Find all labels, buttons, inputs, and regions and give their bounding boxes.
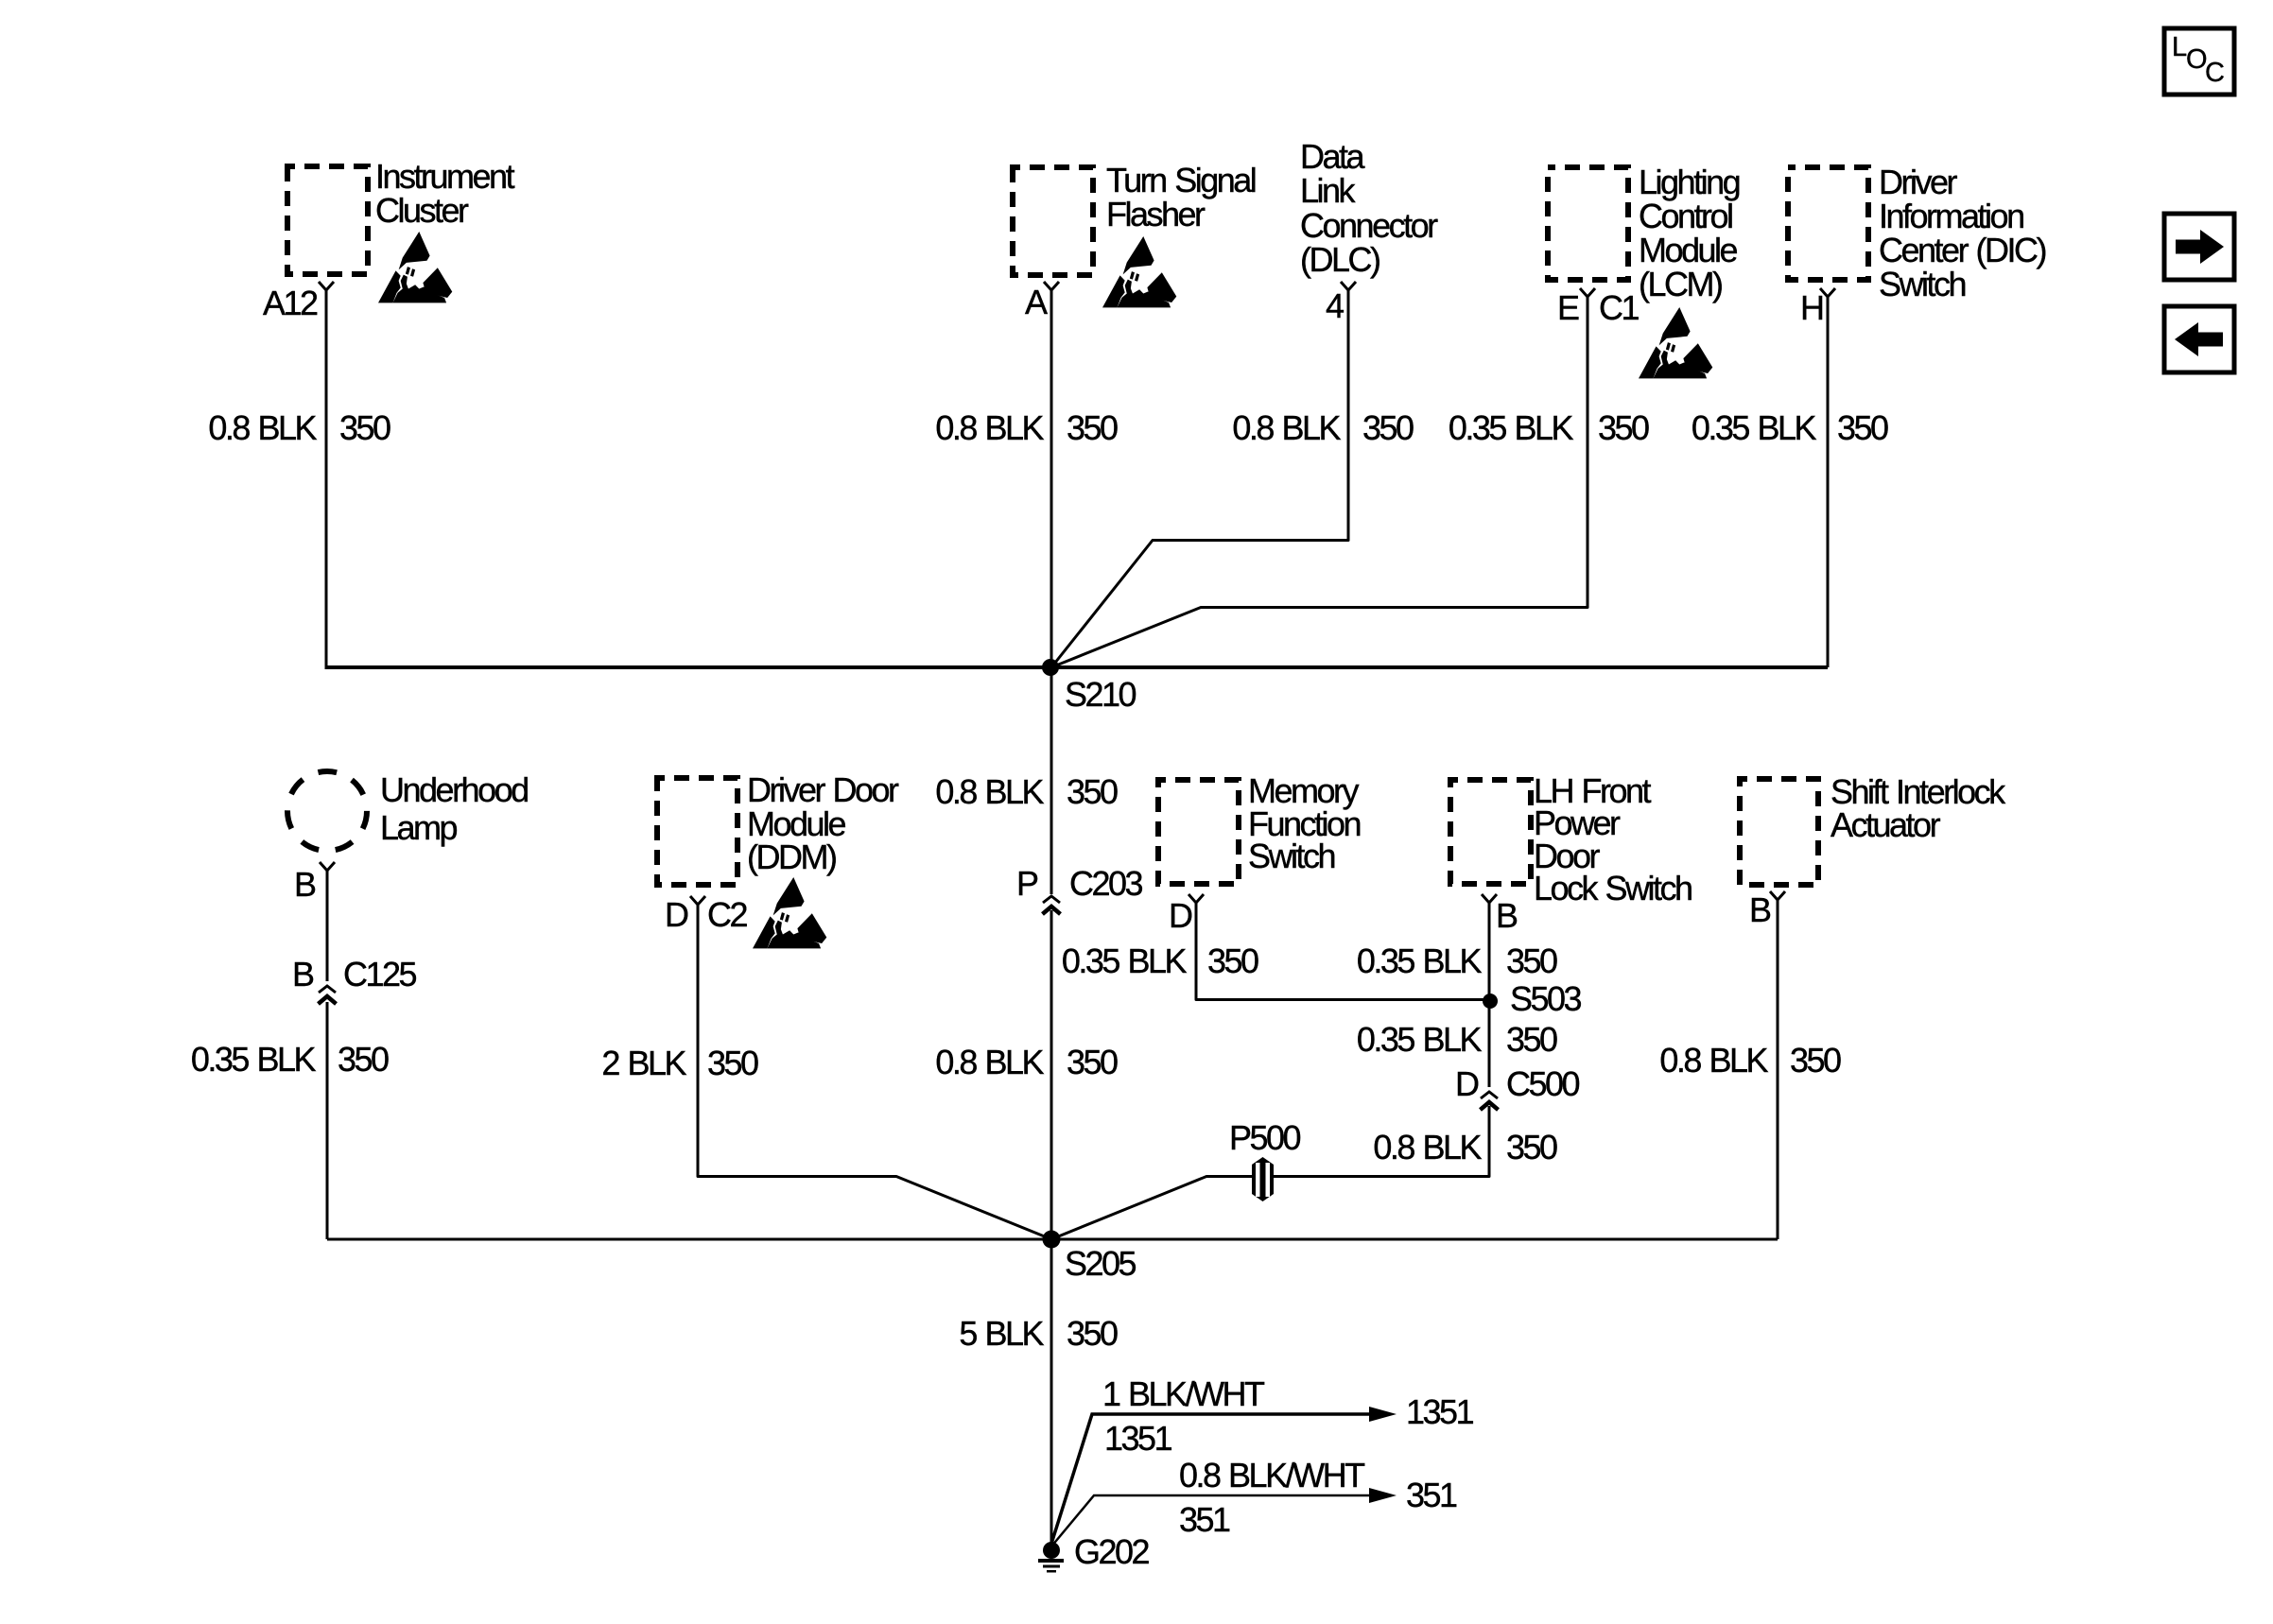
pin P at C203 [1016,867,1037,901]
LOC letters [2172,32,2187,63]
wire bus S205 horizontal [327,1238,1778,1241]
Y connector pin H [1820,288,1835,297]
splice label S205 [1065,1247,1135,1281]
wire LCM pin E to S210 [1051,297,1588,667]
label Instrument Cluster [375,160,512,227]
connector label C125 [343,958,415,992]
pin D at C500 [1455,1067,1478,1101]
pin B (Underhood Lamp) [294,868,315,902]
wire A12 Instrument Cluster to bus S210 [325,290,328,667]
ground label G202 [1074,1535,1148,1569]
wire gauge 0.8 BLK (trunk S210-C203) [935,775,1042,809]
component box LH Front Power Door Lock Switch [1450,780,1531,884]
circuit 350 (A12 wire) [339,411,390,445]
wire gauge 0.8 BLK (flasher wire) [935,411,1042,445]
wire label 1 BLK/WHT [1102,1377,1263,1411]
component box Driver Information Center Switch [1788,167,1868,280]
circuit 350 (shift interlock wire) [1790,1044,1840,1078]
circuit 350 (memory switch wire) [1207,944,1258,978]
grommet symbol P500 [1252,1157,1274,1201]
circuit 350 (DLC wire) [1362,411,1413,445]
ESD symbol (LCM) [1639,307,1712,378]
connector label C2 (DDM) [707,898,746,932]
wire label 0.8 BLK/WHT [1179,1459,1363,1493]
splice S503 [1483,993,1498,1009]
wire Underhood Lamp B down to C125 [326,871,329,981]
component box Instrument Cluster [287,166,368,274]
pin H (DIC Switch) [1800,291,1823,325]
connector label C500 [1506,1067,1578,1101]
pin 4 (DLC) [1326,289,1343,323]
splice label S503 [1510,982,1580,1016]
LOC legend box [2164,28,2234,95]
net 1351 destination [1406,1395,1472,1429]
label Turn Signal Flasher [1106,164,1255,231]
wire trunk S205 to G202 [1050,1239,1053,1545]
wire Door Lock Switch B through S503 to C500 [1488,903,1491,1087]
wire C500 to P500 to S205 [1051,1106,1489,1239]
wire gauge 0.35 BLK (LCM wire) [1449,411,1571,445]
circuit 350 (door lock wire) [1506,944,1556,978]
component box Memory Function Switch [1158,780,1239,884]
wire Memory Function Switch D to S503 [1196,903,1490,1000]
wire gauge 0.35 BLK (DIC wire) [1692,411,1814,445]
right arrow box [2164,214,2234,280]
pin B at C125 [292,958,313,992]
wire branch G202 to net 1351 [1051,1414,1371,1544]
wire gauge 0.8 BLK (C500-P500 wire) [1373,1131,1480,1165]
Y connector pin A12 [319,282,334,290]
circuit 350 (DIC wire) [1837,411,1887,445]
wire trunk C203 to S205 [1050,910,1053,1239]
label Data Link Connector (DLC) [1300,140,1436,277]
ESD symbol (Instrument Cluster) [378,232,452,302]
wire gauge 0.8 BLK (trunk C203-S205) [935,1045,1042,1080]
wire DLC pin 4 to S210 [1051,290,1348,667]
circuit 350 (trunk C203-S205) [1067,1045,1117,1080]
Y connector memory D [1189,894,1204,903]
wire gauge 2 BLK (DDM wire) [601,1046,685,1080]
pin A12 (Instrument Cluster) [263,286,317,320]
circuit number 1351 [1104,1422,1171,1456]
wire C125 down to bus S205 [326,1002,329,1239]
wire gauge 0.8 BLK (shift interlock wire) [1659,1044,1766,1078]
pin A (Turn Signal Flasher) [1025,285,1046,320]
pin B (LH Front Power Door Lock Switch) [1496,899,1517,933]
connector label C1 (LCM) [1599,291,1638,325]
Y connector door lock B [1482,894,1497,903]
pin D (DDM) [665,898,687,932]
Y connector shift interlock B [1770,891,1785,900]
net 351 destination [1406,1478,1456,1512]
component box Turn Signal Flasher [1013,167,1093,275]
circuit 350 (trunk S210-C203) [1067,775,1117,809]
connector label C203 [1069,867,1141,901]
splice S210 [1042,659,1059,676]
component box Lighting Control Module [1548,167,1628,280]
splice S205 [1043,1231,1061,1249]
wire gauge 5 BLK (S205-G202 wire) [959,1317,1042,1351]
component box Shift Interlock Actuator [1740,779,1818,885]
label LH Front Power Door Lock Switch [1534,775,1692,906]
left arrow box [2164,306,2234,372]
pin D (Memory Function Switch) [1169,899,1191,933]
circuit 350 (C500-P500 wire) [1506,1131,1556,1165]
label Driver Information Center (DIC) Switch [1879,165,2045,302]
splice label S210 [1065,678,1135,712]
wire DIC pin H down to bus [1827,297,1830,667]
wire branch G202 to net 351 [1051,1495,1371,1546]
label Shift Interlock Actuator [1831,775,2004,841]
circuit 350 (underhood lamp wire) [338,1043,388,1077]
wire gauge 0.8 BLK (DLC wire) [1232,411,1339,445]
grommet label P500 [1229,1121,1299,1155]
circuit 350 (S503-C500 wire) [1506,1023,1556,1057]
connector symbol C203 [1043,896,1061,914]
pin E (LCM) [1557,291,1578,325]
wire gauge 0.8 BLK (A12 wire) [208,411,315,445]
ground G202 [1038,1542,1064,1573]
label Underhood Lamp [380,771,528,847]
arrowhead net 1351 [1369,1407,1397,1422]
Y connector DDM D [690,896,705,905]
arrowhead net 351 [1369,1488,1397,1503]
circuit number 351 [1179,1503,1229,1537]
circuit 350 (DDM wire) [707,1046,757,1080]
label Memory Function Switch [1248,775,1360,873]
component box Driver Door Module [657,778,737,885]
label Driver Door Module (DDM) [747,773,897,874]
circuit 350 (LCM wire) [1598,411,1648,445]
Y connector pin 4 [1341,282,1356,290]
wire gauge 0.35 BLK (memory switch wire) [1062,944,1185,978]
ESD symbol (DDM) [753,877,826,948]
wire Turn Signal Flasher A to S210 and trunk down to C203 [1050,290,1053,894]
wire Shift Interlock Actuator B down to bus [1777,900,1779,1239]
Y connector pin A [1044,282,1059,290]
connector symbol C125 [319,986,337,1004]
wire gauge 0.35 BLK (S503-C500 wire) [1357,1023,1480,1057]
Y connector pin E [1580,288,1595,297]
wire gauge 0.35 BLK (door lock wire) [1357,944,1480,978]
circuit 350 (S205-G202 wire) [1067,1317,1117,1351]
wire bus S210 horizontal (350 BLK trunk) [325,665,1829,669]
wire gauge 0.35 BLK (underhood lamp wire) [191,1043,314,1077]
label Lighting Control Module (LCM) [1639,165,1739,302]
wire DDM D to S205 [698,905,1051,1239]
connector symbol C500 [1481,1092,1499,1110]
ESD symbol (Turn Signal Flasher) [1102,236,1176,307]
Y connector lamp B [320,862,335,871]
component circle Underhood Lamp [287,771,367,851]
pin B (Shift Interlock Actuator) [1749,893,1770,927]
circuit 350 (flasher wire) [1067,411,1117,445]
